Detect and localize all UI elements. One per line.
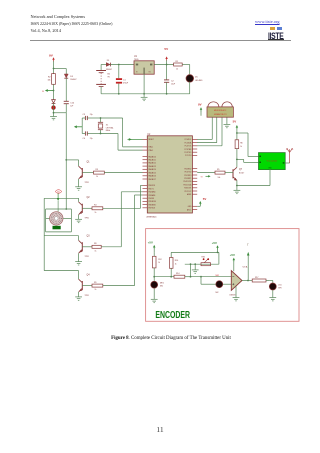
transistor Q3 <box>79 236 91 262</box>
wire 9V node split <box>53 68 67 70</box>
terminal arrow RESET pin <box>128 138 143 141</box>
svg-text:PB5/MOSI: PB5/MOSI <box>148 201 156 203</box>
svg-text:1k: 1k <box>175 263 177 265</box>
ground <box>269 298 276 301</box>
wire module pin4 gnd <box>226 117 228 124</box>
capacitor C10 <box>64 78 75 107</box>
wire module pin2 to U2 <box>197 117 217 142</box>
transistor Q4 <box>79 271 91 297</box>
ground <box>50 117 57 120</box>
svg-text:LS1: LS1 <box>278 284 281 286</box>
microphone MK2 <box>200 275 231 294</box>
svg-text:PB6/MISO: PB6/MISO <box>148 204 156 206</box>
svg-text:R14: R14 <box>176 273 179 275</box>
resistor R5 <box>197 169 233 179</box>
svg-text:SPK: SPK <box>278 288 282 290</box>
svg-text:M1: M1 <box>57 191 59 193</box>
svg-text:MILFORD-8CC: MILFORD-8CC <box>214 110 227 112</box>
svg-text:Q4: Q4 <box>87 274 91 276</box>
svg-text:C10: C10 <box>70 102 75 104</box>
wire base Q2 to U2 <box>103 185 143 208</box>
svg-text:PD7/OC2: PD7/OC2 <box>184 191 191 193</box>
wire collector Q1 <box>66 159 78 161</box>
antenna AN1 <box>285 148 293 163</box>
resistor R3 <box>82 169 104 178</box>
ground <box>75 262 82 265</box>
svg-text:D3: D3 <box>70 76 74 78</box>
svg-text:LM358: LM358 <box>230 295 236 297</box>
op-amp U3:A <box>230 265 248 296</box>
svg-text:R2: R2 <box>48 76 52 78</box>
svg-text:TX: TX <box>201 177 204 179</box>
svg-text:9V: 9V <box>49 54 54 58</box>
svg-text:PC3/TMS: PC3/TMS <box>184 149 191 151</box>
resistor R2 <box>47 69 55 85</box>
resistor R16 <box>170 252 179 276</box>
svg-text:1k: 1k <box>95 289 97 291</box>
resistor R4 <box>82 205 103 214</box>
RF transmitter module MILFORD <box>207 102 233 117</box>
svg-text:PD4/OC1B: PD4/OC1B <box>183 181 191 183</box>
wire module pin3 to U2 <box>197 117 222 146</box>
svg-text:1k: 1k <box>176 68 178 70</box>
svg-text:PD1/TXD: PD1/TXD <box>185 172 193 174</box>
wire ground rail <box>101 93 190 95</box>
svg-text:ATMEGA16: ATMEGA16 <box>147 215 157 218</box>
wire left rail <box>43 198 45 270</box>
svg-text:1k: 1k <box>96 176 98 178</box>
wire collector Q3 <box>44 235 78 237</box>
svg-text:TIP31: TIP31 <box>85 295 90 297</box>
svg-text:9V: 9V <box>198 102 202 106</box>
ground <box>141 97 148 100</box>
wire to transmitter data pin <box>237 159 259 162</box>
transmitter module TX1 <box>259 153 286 170</box>
svg-text:TIP31: TIP31 <box>85 182 90 184</box>
svg-text:R9: R9 <box>94 282 96 284</box>
svg-text:5V: 5V <box>164 47 169 51</box>
svg-text:D1: D1 <box>107 60 111 62</box>
svg-text:PC5/TDI: PC5/TDI <box>185 155 192 157</box>
resistor R6 <box>235 133 243 159</box>
svg-text:MK1: MK1 <box>160 282 164 284</box>
svg-text:U1: U1 <box>134 56 138 58</box>
resistor R17 <box>252 277 270 282</box>
svg-text:PB1/T1: PB1/T1 <box>148 188 153 190</box>
svg-text:Q3: Q3 <box>87 236 91 238</box>
svg-text:R16: R16 <box>175 260 178 262</box>
wire U1 gnd pin <box>143 74 145 95</box>
svg-text:R8: R8 <box>94 243 96 245</box>
terminal input arrow <box>42 89 54 93</box>
capacitor C3 <box>82 114 100 120</box>
svg-text:BC547: BC547 <box>239 173 244 175</box>
svg-text:R17: R17 <box>255 277 258 279</box>
power flag 5V <box>164 47 169 64</box>
svg-text:10k: 10k <box>47 80 50 82</box>
capacitor C1 electrolytic <box>116 65 129 94</box>
wire opamp gnd <box>233 286 240 301</box>
wire C10 to gnd rail <box>54 104 67 113</box>
svg-text:22p: 22p <box>90 138 93 140</box>
ground at divider <box>192 263 199 273</box>
svg-text:PB4/SS: PB4/SS <box>148 198 154 200</box>
diode D3 <box>64 69 76 82</box>
svg-text:MIC: MIC <box>160 286 164 288</box>
svg-text:R4: R4 <box>94 205 96 207</box>
svg-text:T: T <box>247 243 250 247</box>
power flag 5V at R6 <box>233 119 239 134</box>
svg-text:TIP31: TIP31 <box>85 218 90 220</box>
ground <box>75 187 82 190</box>
encoder section box <box>146 229 299 322</box>
svg-text:PD2/INT0: PD2/INT0 <box>184 175 191 177</box>
potentiometer RV1 <box>201 256 211 265</box>
wire base Q3 to U2 <box>101 192 142 247</box>
wire 5V node to transmitter vcc pin <box>237 133 259 157</box>
wire Q7 emitter / transmitter gnd <box>236 185 270 191</box>
wire opamp output <box>242 280 252 282</box>
node data <box>236 159 238 161</box>
svg-text:C2: C2 <box>171 81 175 83</box>
svg-text:R3: R3 <box>96 169 98 171</box>
power flag 9V (battery input rail) <box>49 54 55 69</box>
wire collector Q2 <box>44 197 78 199</box>
svg-text:1k: 1k <box>95 250 97 252</box>
motor MOT1 <box>50 212 63 225</box>
power flag +5V divider <box>212 241 219 253</box>
power flag +5V opamp <box>230 253 235 271</box>
power flag +5V mic branch <box>148 241 156 253</box>
wire transmitter gnd pin <box>269 169 271 185</box>
svg-text:C1: C1 <box>123 79 127 81</box>
svg-text:PC0/SCL: PC0/SCL <box>185 139 192 141</box>
wire 9V rail down to motor section <box>65 113 67 210</box>
svg-text:PC2/TCK: PC2/TCK <box>185 146 193 148</box>
svg-text:22p: 22p <box>90 114 93 116</box>
svg-text:LED-RED: LED-RED <box>195 80 203 82</box>
crystal X1 <box>98 117 114 134</box>
microcontroller U2 ATMEGA16 <box>143 134 198 219</box>
ground <box>75 219 82 222</box>
arrow to motor <box>57 193 60 211</box>
LED D4 (power indicator) <box>52 100 56 113</box>
wire D1 to U1 <box>110 64 134 66</box>
wire divider rail <box>185 252 219 276</box>
wire to opamp inverting input <box>190 276 232 278</box>
label M1 source <box>56 190 62 194</box>
diode D1 <box>101 60 112 71</box>
svg-text:CRYSTAL: CRYSTAL <box>106 126 114 129</box>
power flag 9V at RF module <box>198 102 202 115</box>
ground <box>75 297 82 300</box>
svg-text:1k: 1k <box>95 212 97 214</box>
svg-text:PC4/TDO: PC4/TDO <box>184 152 192 154</box>
label TX arrow at U2 PD pin <box>201 175 211 179</box>
terminal arrow at C3/C4 <box>74 118 82 134</box>
svg-text:470uF: 470uF <box>123 83 129 85</box>
svg-text:Transmitter: Transmitter <box>266 159 277 162</box>
svg-text:IN: IN <box>42 91 44 93</box>
svg-text:1N4007: 1N4007 <box>106 69 112 71</box>
wire base Q4 to U2 <box>103 195 143 286</box>
svg-text:1k: 1k <box>158 262 160 264</box>
motor label plate <box>53 226 61 230</box>
svg-text:ENCODER: ENCODER <box>155 310 190 321</box>
wire XTAL2 <box>101 134 143 151</box>
svg-text:Q2: Q2 <box>87 197 91 199</box>
svg-text:+5V: +5V <box>230 253 235 257</box>
wire motor loop <box>46 209 72 232</box>
transistor Q7 <box>233 159 244 185</box>
svg-text:R6: R6 <box>240 143 242 145</box>
svg-text:X1: X1 <box>106 124 109 126</box>
svg-text:+5V: +5V <box>212 241 217 245</box>
svg-text:+5V: +5V <box>148 241 153 245</box>
svg-text:5V: 5V <box>233 119 237 123</box>
ground <box>234 190 241 193</box>
transistor Q2 <box>79 197 91 219</box>
ground <box>224 124 231 127</box>
svg-text:C3: C3 <box>83 114 86 116</box>
wire top rail encoder <box>171 251 219 253</box>
svg-text:D5: D5 <box>195 77 199 79</box>
ground <box>151 299 158 302</box>
wire module pin1 to U2 <box>197 117 212 139</box>
svg-text:RESET: RESET <box>148 139 153 141</box>
resistor R1 <box>174 61 190 70</box>
svg-text:TIP31: TIP31 <box>85 256 90 258</box>
svg-text:1N4007: 1N4007 <box>70 79 76 81</box>
microphone MK1 <box>151 281 164 299</box>
wire collector Q4 <box>44 270 78 272</box>
wire U1 output <box>154 64 173 66</box>
svg-text:1k: 1k <box>240 146 242 148</box>
svg-text:B1: B1 <box>108 73 111 75</box>
terminal T pointer of encoder output <box>247 243 250 281</box>
capacitor C4 <box>82 131 100 140</box>
wire base Q1 to U2 <box>104 172 142 174</box>
sounder LS1 <box>269 281 282 298</box>
power flag 5V at U2 VCC <box>197 197 206 206</box>
resistor R9 <box>82 282 103 291</box>
svg-text:9V: 9V <box>108 77 111 79</box>
svg-text:10k: 10k <box>218 177 221 179</box>
svg-text:R5: R5 <box>217 169 219 171</box>
resistor R12 <box>153 252 162 281</box>
svg-text:R12: R12 <box>158 259 161 261</box>
svg-text:5V: 5V <box>203 197 207 201</box>
regulator U1 7805 <box>134 56 154 74</box>
svg-text:MIC: MIC <box>216 292 220 294</box>
svg-text:RV1: RV1 <box>202 256 206 258</box>
wire U1 gnd stem <box>143 94 145 98</box>
svg-text:PD6/ICP1: PD6/ICP1 <box>184 188 191 190</box>
wire motor leads <box>46 217 72 219</box>
node ground of 9V branch <box>53 112 55 117</box>
resistor R8 <box>82 243 101 252</box>
svg-text:MK2: MK2 <box>216 275 220 277</box>
capacitor C2 <box>164 65 176 94</box>
svg-text:U3:A: U3:A <box>243 265 248 268</box>
svg-text:PB0/XCK: PB0/XCK <box>148 185 156 187</box>
svg-text:8MHz: 8MHz <box>106 130 111 132</box>
battery B1 <box>96 65 111 94</box>
svg-text:PB7/SCK: PB7/SCK <box>148 208 156 210</box>
svg-text:Q7: Q7 <box>239 169 243 171</box>
wire R2 to LED D4 <box>53 84 55 99</box>
resistor R14 <box>174 273 191 278</box>
svg-text:433MHZ RF-TX: 433MHZ RF-TX <box>214 114 227 116</box>
svg-text:1uF: 1uF <box>70 106 74 108</box>
svg-text:PD3/INT1: PD3/INT1 <box>184 178 191 180</box>
wire mic node <box>153 276 174 278</box>
transistor Q1 <box>79 160 91 187</box>
svg-text:10uF: 10uF <box>171 84 176 86</box>
wire XTAL1 <box>101 118 143 147</box>
svg-text:C4: C4 <box>83 138 86 140</box>
svg-text:PD0/RXD: PD0/RXD <box>184 168 192 170</box>
LED D5 <box>186 65 203 94</box>
svg-text:Q1: Q1 <box>87 161 91 163</box>
